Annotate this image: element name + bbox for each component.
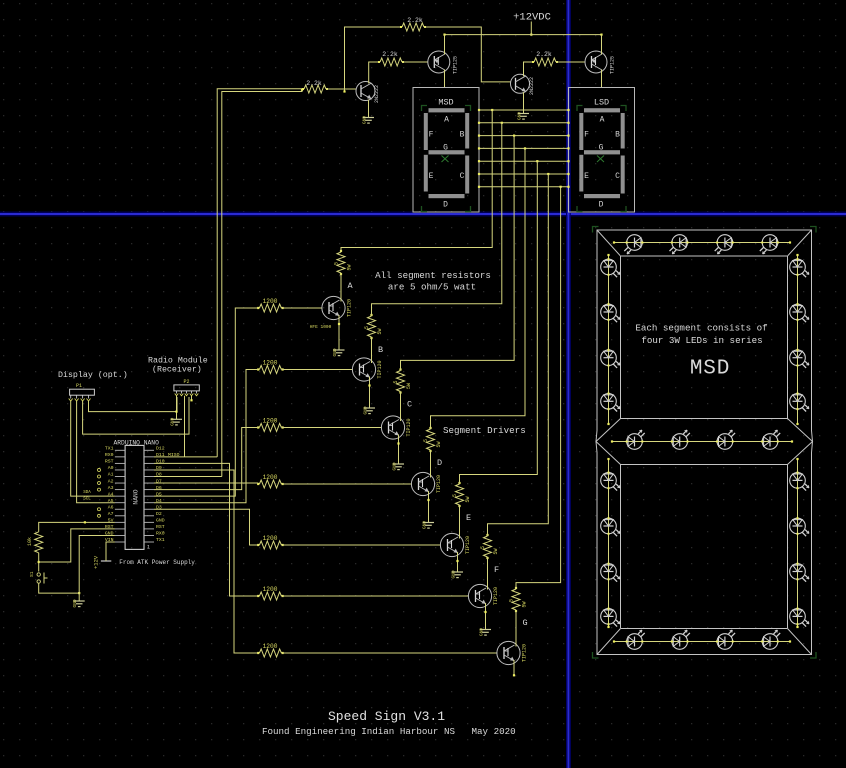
LED upper-right segment 3 bbox=[790, 349, 809, 368]
ground Q1 bbox=[362, 116, 375, 124]
svg-text:P2: P2 bbox=[183, 379, 189, 385]
svg-text:TX1: TX1 bbox=[105, 446, 114, 452]
svg-text:D: D bbox=[437, 458, 442, 468]
svg-text:1200: 1200 bbox=[263, 586, 278, 593]
svg-text:A: A bbox=[600, 116, 605, 125]
svg-text:F: F bbox=[494, 565, 499, 575]
svg-text:TIP120: TIP120 bbox=[347, 299, 353, 317]
wire nano GND to ground node bbox=[79, 535, 115, 601]
svg-text:A0: A0 bbox=[108, 465, 114, 471]
LED top segment 1 bbox=[624, 235, 643, 254]
wire +12V rail bbox=[443, 34, 602, 36]
wire 1200 to C base bbox=[281, 427, 381, 429]
svg-text:From ATK Power Supply: From ATK Power Supply bbox=[119, 559, 195, 566]
LED lower-right segment 1 bbox=[790, 472, 809, 491]
wire LED chain upper-right segment bbox=[796, 254, 798, 425]
wire C to bus bbox=[401, 136, 515, 371]
svg-text:TIP125: TIP125 bbox=[610, 56, 616, 74]
wire S1 to ground node bbox=[39, 583, 81, 594]
svg-text:RX0: RX0 bbox=[105, 452, 114, 458]
svg-text:5W: 5W bbox=[347, 264, 353, 270]
wire E to bus bbox=[460, 161, 538, 484]
wire segment bus D bbox=[478, 147, 570, 149]
svg-text:2.2k: 2.2k bbox=[306, 80, 322, 87]
LED middle segment 3 bbox=[716, 430, 735, 449]
MSD segment B bbox=[465, 113, 469, 149]
wire top 2.2k to Q2 base bbox=[424, 27, 511, 82]
LED lower-right segment 3 bbox=[790, 563, 809, 582]
LSD segment G bbox=[584, 150, 620, 154]
wire E emitter bbox=[456, 552, 458, 572]
svg-text:5: 5 bbox=[480, 546, 486, 549]
wire A emitter bbox=[338, 315, 340, 350]
wire B to bus bbox=[372, 123, 502, 316]
transistor G TIP120 bbox=[497, 641, 528, 664]
svg-text:5: 5 bbox=[393, 380, 399, 383]
MSD green cross bbox=[442, 156, 449, 163]
svg-text:GND: GND bbox=[517, 112, 523, 120]
resistor 5 ohm (B) bbox=[364, 314, 383, 339]
wire A to bus bbox=[341, 110, 492, 252]
svg-text:1200: 1200 bbox=[263, 535, 278, 542]
svg-text:5: 5 bbox=[423, 439, 429, 442]
LED lower-right segment 2 bbox=[790, 517, 809, 536]
resistor 2.2k (MSD base) bbox=[302, 80, 328, 93]
MSD segment F bbox=[424, 113, 428, 150]
wire F collector bbox=[487, 557, 489, 590]
svg-text:D: D bbox=[443, 201, 448, 210]
svg-text:5W: 5W bbox=[493, 548, 499, 554]
connector P2 bbox=[174, 379, 199, 396]
wire nano D4 to B driver bbox=[154, 370, 258, 503]
svg-text:1: 1 bbox=[147, 545, 150, 551]
LED top segment 3 bbox=[715, 235, 734, 254]
svg-text:TIP125: TIP125 bbox=[453, 56, 459, 74]
LED lower-left segment 2 bbox=[601, 517, 620, 536]
svg-text:E: E bbox=[584, 172, 589, 181]
svg-text:5: 5 bbox=[334, 262, 340, 265]
label +12V supply bbox=[93, 555, 112, 569]
svg-text:SDA: SDA bbox=[83, 491, 91, 495]
wire RST row to S1 node bbox=[39, 529, 115, 562]
ground A driver bbox=[332, 348, 345, 356]
svg-text:Found Engineering Indian Harbo: Found Engineering Indian Harbour NS May … bbox=[262, 726, 516, 737]
svg-text:P1: P1 bbox=[76, 383, 82, 389]
wire 1200 to D base bbox=[281, 483, 411, 485]
svg-text:2N2222: 2N2222 bbox=[374, 85, 380, 103]
transistor E TIP120 bbox=[440, 533, 471, 556]
LED upper-left segment 3 bbox=[601, 349, 620, 368]
svg-text:A1: A1 bbox=[108, 472, 114, 478]
svg-text:B: B bbox=[378, 345, 383, 355]
svg-text:RST: RST bbox=[105, 459, 114, 465]
LSD corner markers bbox=[577, 106, 626, 212]
LSD segment C bbox=[621, 156, 625, 194]
svg-text:NANO: NANO bbox=[133, 489, 140, 504]
wire nano D3 to E driver bbox=[154, 509, 258, 545]
svg-text:C: C bbox=[460, 172, 465, 181]
wire P2 pin1 to ground bbox=[175, 396, 177, 420]
MSD corner markers bbox=[422, 106, 471, 212]
svg-text:E: E bbox=[466, 513, 471, 523]
svg-text:GND: GND bbox=[392, 462, 398, 470]
resistor 5 ohm (G) bbox=[509, 587, 528, 612]
wire segment bus C bbox=[478, 135, 570, 137]
ic U3 Arduino Nano body bbox=[125, 445, 150, 550]
LED middle segment 2 bbox=[671, 430, 690, 449]
svg-text:B: B bbox=[615, 131, 620, 140]
svg-text:+12VDC: +12VDC bbox=[513, 12, 551, 24]
LED upper-right segment 4 bbox=[790, 393, 809, 412]
transistor F TIP120 bbox=[468, 584, 499, 607]
wire 2.2k to U1 base bbox=[402, 61, 428, 63]
LED bottom segment 1 bbox=[626, 630, 645, 649]
wire 1200 to F base bbox=[281, 595, 468, 597]
wire Q2 emitter bbox=[523, 92, 525, 113]
wire 10k to S1 bbox=[38, 553, 40, 572]
wire nano D11 to MSD select bbox=[154, 456, 217, 458]
svg-text:F: F bbox=[429, 131, 434, 140]
svg-text:5W: 5W bbox=[522, 601, 528, 607]
LED top segment 4 bbox=[760, 235, 779, 254]
svg-text:GND: GND bbox=[363, 406, 369, 414]
note each segment text bbox=[635, 323, 767, 347]
LED upper-left segment 4 bbox=[601, 393, 620, 412]
svg-text:HFE 1000: HFE 1000 bbox=[310, 324, 332, 330]
wire 10k top to nano 5V bbox=[39, 521, 115, 532]
svg-text:TIP120: TIP120 bbox=[406, 418, 412, 436]
wire digit select bus lower bbox=[222, 90, 302, 477]
svg-text:TX1: TX1 bbox=[156, 537, 165, 543]
resistor 5 ohm (F) bbox=[480, 534, 499, 559]
svg-text:5: 5 bbox=[364, 326, 370, 329]
wire P2 pin3 to nano TX bbox=[184, 396, 186, 457]
svg-text:2.2k: 2.2k bbox=[536, 51, 552, 58]
wire U1 emitter to +12V bbox=[444, 35, 446, 55]
crosshair horizontal blue line bbox=[0, 212, 846, 216]
svg-text:D: D bbox=[599, 201, 604, 210]
wire segment bus E bbox=[478, 160, 570, 162]
wire digit select bus upper bbox=[217, 89, 303, 457]
wire 1200 to A base bbox=[281, 307, 322, 309]
wire Q1 emitter bbox=[368, 100, 370, 118]
wire F to bus bbox=[488, 174, 549, 536]
svg-text:A3: A3 bbox=[108, 485, 114, 491]
svg-text:1200: 1200 bbox=[263, 360, 278, 367]
svg-text:(Receiver): (Receiver) bbox=[152, 365, 202, 375]
resistor 2.2k (Q2-TIP125) bbox=[532, 51, 558, 66]
wire C collector bbox=[400, 392, 402, 422]
wire LED chain lower-right segment bbox=[796, 458, 798, 628]
svg-text:1200: 1200 bbox=[263, 474, 278, 481]
svg-text:TIP120: TIP120 bbox=[465, 536, 471, 554]
wire nano D5 to A driver bbox=[154, 308, 258, 496]
LSD segment E bbox=[579, 155, 583, 192]
wire G collector bbox=[515, 610, 517, 647]
ground E driver bbox=[451, 570, 464, 578]
svg-text:G: G bbox=[522, 618, 527, 628]
wire P1 SDA to nano A4 bbox=[71, 401, 115, 496]
LED upper-left segment 2 bbox=[601, 303, 620, 322]
wire segment bus A bbox=[478, 109, 570, 111]
ic U3 pins bbox=[98, 446, 180, 544]
wire D to bus bbox=[431, 148, 526, 429]
MSD segment D bbox=[429, 194, 465, 198]
wire D emitter bbox=[427, 491, 429, 523]
wire +12VDC stub bbox=[530, 22, 532, 36]
LED lower-left segment 3 bbox=[601, 563, 620, 582]
svg-text:GND: GND bbox=[170, 417, 176, 425]
svg-text:four 3W LEDs in series: four 3W LEDs in series bbox=[641, 335, 762, 346]
svg-text:5W: 5W bbox=[436, 441, 442, 447]
resistor 5 ohm (C) bbox=[393, 368, 412, 393]
svg-text:1200: 1200 bbox=[263, 643, 278, 650]
wire 2.2k to U2 base bbox=[556, 61, 585, 63]
transistor U1 TIP125 (MSD driver) bbox=[428, 51, 459, 74]
resistor 2.2k (top) bbox=[400, 17, 426, 31]
svg-text:5: 5 bbox=[452, 494, 458, 497]
wire nano D8 to LSD select bbox=[154, 476, 222, 478]
ground C driver bbox=[392, 462, 405, 470]
LED middle segment 1 bbox=[626, 430, 645, 449]
svg-text:1200: 1200 bbox=[263, 298, 278, 305]
ground reset/S1 bbox=[72, 599, 85, 607]
crosshair vertical blue line bbox=[567, 0, 571, 768]
svg-text:C: C bbox=[615, 172, 620, 181]
switch S1 (reset) bbox=[29, 571, 48, 583]
wire E collector bbox=[459, 505, 461, 539]
wire 1200 to G base bbox=[281, 652, 497, 654]
svg-text:C: C bbox=[407, 400, 412, 410]
svg-text:Radio Module: Radio Module bbox=[148, 356, 208, 366]
svg-text:E: E bbox=[429, 172, 434, 181]
wire P2 pin4 stub bbox=[190, 396, 192, 402]
LED lower-right segment 4 bbox=[790, 608, 809, 627]
svg-text:RX0: RX0 bbox=[156, 531, 165, 537]
wire +12V to nano VIN bbox=[106, 542, 115, 561]
wire A collector bbox=[340, 273, 342, 302]
transistor B TIP120 bbox=[352, 358, 383, 381]
wire P1 pin4 to P2 bbox=[89, 397, 178, 412]
resistor 1200 (C base) bbox=[257, 418, 284, 432]
wire 2.2k to Q1 base bbox=[326, 88, 356, 90]
svg-text:GND: GND bbox=[451, 570, 457, 578]
svg-text:MSD: MSD bbox=[690, 358, 730, 381]
MSD segment letters bbox=[429, 116, 465, 210]
svg-text:TIP120: TIP120 bbox=[377, 360, 383, 378]
wire B emitter bbox=[368, 377, 370, 409]
svg-text:TIP120: TIP120 bbox=[493, 587, 499, 605]
transistor D TIP120 bbox=[411, 472, 442, 495]
LED middle segment 4 bbox=[761, 430, 780, 449]
resistor 5 ohm (D) bbox=[423, 427, 442, 452]
MSD segment C bbox=[465, 156, 469, 194]
LED display corner markers bbox=[593, 227, 817, 659]
svg-text:Speed Sign V3.1: Speed Sign V3.1 bbox=[328, 709, 445, 724]
transistor C TIP120 bbox=[381, 416, 412, 439]
svg-text:D2: D2 bbox=[156, 511, 162, 517]
wire nano D9 to G driver bbox=[154, 470, 258, 653]
LSD segment D bbox=[584, 194, 620, 198]
LSD green cross bbox=[597, 156, 604, 163]
wire C emitter bbox=[397, 435, 399, 465]
wire nano D6 to C driver bbox=[154, 428, 258, 490]
svg-text:+12V: +12V bbox=[93, 555, 100, 569]
svg-text:2.2k: 2.2k bbox=[382, 51, 398, 58]
svg-text:All segment resistors: All segment resistors bbox=[375, 270, 491, 281]
wire LED chain upper-left segment bbox=[607, 254, 609, 425]
LED upper-right segment 2 bbox=[790, 303, 809, 322]
svg-text:B: B bbox=[460, 131, 465, 140]
resistor 1200 (F base) bbox=[257, 586, 284, 600]
MSD segment A bbox=[429, 108, 465, 112]
svg-text:S1: S1 bbox=[29, 571, 35, 577]
MSD segment E bbox=[424, 155, 428, 192]
svg-text:A2: A2 bbox=[108, 478, 114, 484]
resistor 2.2k (Q1-TIP125) bbox=[378, 51, 404, 66]
LED top segment 2 bbox=[670, 235, 689, 254]
svg-text:LSD: LSD bbox=[594, 98, 609, 108]
svg-text:Segment Drivers: Segment Drivers bbox=[443, 425, 526, 436]
svg-text:MSD: MSD bbox=[438, 98, 453, 108]
svg-text:D12: D12 bbox=[156, 446, 165, 452]
LED bottom segment 2 bbox=[671, 630, 690, 649]
svg-text:are 5 ohm/5 watt: are 5 ohm/5 watt bbox=[388, 282, 476, 293]
svg-text:1200: 1200 bbox=[263, 418, 278, 425]
LED lower-left segment 4 bbox=[601, 608, 620, 627]
svg-text:10k: 10k bbox=[27, 537, 33, 546]
LSD segment B bbox=[621, 113, 625, 149]
svg-text:2.2k: 2.2k bbox=[407, 17, 423, 24]
svg-text:A7: A7 bbox=[108, 511, 114, 517]
wire B collector bbox=[371, 337, 373, 363]
ground F driver bbox=[479, 628, 492, 636]
wire Q2 collector bbox=[524, 62, 535, 76]
svg-text:A6: A6 bbox=[108, 504, 114, 510]
wire P1 SCL to nano A5 bbox=[77, 401, 115, 503]
svg-text:Display (opt.): Display (opt.) bbox=[58, 370, 128, 380]
svg-text:5W: 5W bbox=[377, 328, 383, 334]
LSD segment letters bbox=[584, 116, 620, 210]
svg-text:5W: 5W bbox=[406, 383, 412, 389]
wire 1200 to E base bbox=[281, 544, 440, 546]
wire segment bus G bbox=[478, 186, 570, 188]
svg-text:A: A bbox=[347, 281, 353, 291]
wire U2 emitter to +12V bbox=[601, 35, 603, 55]
resistor 5 ohm (A) bbox=[334, 250, 353, 275]
ground P2 bbox=[170, 417, 183, 425]
wire LED chain bottom segment bbox=[613, 640, 791, 642]
svg-text:A: A bbox=[444, 116, 449, 125]
label Radio Module (Receiver) bbox=[148, 356, 208, 375]
LED display outer border bbox=[596, 230, 813, 655]
svg-text:F: F bbox=[584, 131, 589, 140]
wire segment bus F bbox=[478, 173, 570, 175]
wire U2 collector to LSD bbox=[601, 70, 603, 88]
LED bottom segment 4 bbox=[761, 630, 780, 649]
wire nano D10 to F driver bbox=[154, 463, 258, 596]
transistor Q2 2N2222 (LSD digit) bbox=[511, 74, 536, 95]
resistor 1200 (A base) bbox=[257, 298, 284, 312]
wire G to bus bbox=[516, 187, 561, 589]
ground D driver bbox=[422, 521, 435, 529]
svg-text:G: G bbox=[443, 143, 448, 152]
ground Q2 bbox=[517, 112, 530, 120]
svg-text:G: G bbox=[599, 143, 604, 152]
wire U1 collector to MSD bbox=[444, 70, 446, 88]
svg-text:GND: GND bbox=[422, 521, 428, 529]
transistor U2 TIP125 (LSD driver) bbox=[585, 51, 616, 74]
svg-text:GND: GND bbox=[362, 116, 368, 124]
svg-text:RST: RST bbox=[156, 524, 165, 530]
wire F emitter bbox=[484, 603, 486, 630]
LSD segment A bbox=[584, 108, 620, 112]
wire D collector bbox=[430, 450, 432, 478]
LSD segment F bbox=[579, 113, 583, 150]
wire 1200 to B base bbox=[281, 369, 352, 371]
wire G emitter bbox=[513, 660, 515, 676]
svg-text:Each segment consists of: Each segment consists of bbox=[635, 323, 767, 334]
svg-text:SCL: SCL bbox=[83, 498, 91, 502]
svg-text:5: 5 bbox=[509, 599, 515, 602]
resistor 5 ohm (E) bbox=[452, 482, 471, 507]
wire cross link to top 2.2k bbox=[343, 27, 402, 93]
svg-text:GND: GND bbox=[72, 599, 78, 607]
ground B driver bbox=[363, 406, 376, 414]
MSD segment G bbox=[429, 150, 465, 154]
svg-text:2N2222: 2N2222 bbox=[529, 77, 535, 95]
wire LED chain middle segment bbox=[611, 440, 793, 442]
LED bottom segment 3 bbox=[716, 630, 735, 649]
svg-text:TIP120: TIP120 bbox=[522, 644, 528, 662]
LED lower-left segment 1 bbox=[601, 472, 620, 491]
transistor A TIP120 bbox=[322, 296, 353, 319]
wire P1 pin3 to P2 bbox=[83, 397, 189, 434]
LED upper-right segment 1 bbox=[790, 258, 809, 277]
resistor 1200 (B base) bbox=[257, 360, 284, 374]
wire nano D7 to D driver bbox=[154, 482, 258, 484]
svg-text:5W: 5W bbox=[465, 496, 471, 502]
wire LED chain top segment bbox=[613, 241, 791, 243]
note segment resistors bbox=[375, 270, 491, 293]
LED upper-left segment 1 bbox=[601, 258, 620, 277]
wire segment bus B bbox=[478, 122, 570, 124]
svg-text:GND: GND bbox=[332, 348, 338, 356]
resistor 1200 (G base) bbox=[257, 643, 284, 657]
wire Q1 collector bbox=[369, 62, 380, 84]
resistor 1200 (D base) bbox=[257, 474, 284, 488]
wire LED chain lower-left segment bbox=[607, 458, 609, 628]
connector P1 bbox=[69, 383, 95, 401]
display MSD box bbox=[413, 88, 479, 213]
LED display inner borders bbox=[596, 230, 813, 655]
svg-text:GND: GND bbox=[479, 628, 485, 636]
resistor 10k (reset pullup) bbox=[27, 532, 43, 553]
resistor 1200 (E base) bbox=[257, 535, 284, 549]
display LSD box bbox=[569, 88, 635, 213]
transistor Q1 2N2222 (MSD digit) bbox=[356, 82, 380, 104]
svg-text:TIP120: TIP120 bbox=[436, 475, 442, 493]
svg-text:GND: GND bbox=[156, 518, 165, 524]
